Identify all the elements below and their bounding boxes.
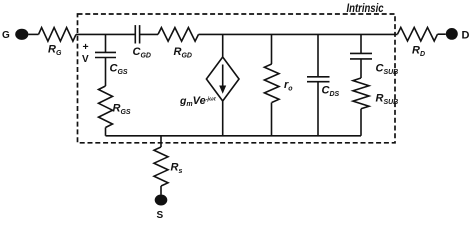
capacitor C_DS — [317, 34, 319, 76]
wire bottom rail to R_S — [160, 136, 162, 147]
node D terminal — [446, 28, 458, 40]
wire R_GD to drain internal rail — [199, 33, 398, 35]
svg-text:V: V — [82, 54, 89, 65]
wire C_GD to R_GD — [140, 33, 158, 35]
wire R_D to D terminal — [438, 33, 446, 35]
current source U1 (gmV) — [222, 34, 224, 57]
node G terminal — [15, 29, 28, 40]
svg-text:G: G — [2, 30, 10, 41]
svg-text:S: S — [157, 210, 164, 221]
resistor R_D — [398, 27, 438, 41]
wire C_GS to R_GS — [105, 58, 107, 87]
wire R_G to node A (gate internal) — [76, 33, 135, 35]
wire R_SUB to bottom rail — [360, 109, 362, 136]
resistor R_S — [154, 147, 168, 186]
resistor r_o — [271, 34, 273, 64]
svg-text:Intrinsic: Intrinsic — [347, 3, 384, 15]
capacitor C_GS — [105, 34, 107, 52]
wire R_S to S terminal — [160, 186, 162, 195]
svg-text:D: D — [462, 30, 470, 42]
svg-text:+: + — [83, 41, 89, 53]
resistor R_GD — [158, 28, 199, 42]
wire R_GS to bottom rail — [105, 128, 107, 136]
dashed intrinsic box — [78, 14, 396, 143]
wire C_SUB to R_SUB — [360, 59, 362, 78]
resistor R_SUB — [353, 78, 369, 109]
capacitor C_GD — [134, 25, 136, 43]
resistor R_GS — [99, 86, 113, 128]
wire G to R_G — [28, 33, 38, 35]
bottom rail wire — [106, 135, 362, 137]
resistor R_G — [39, 28, 77, 42]
capacitor C_SUB — [360, 34, 362, 53]
node S terminal — [155, 195, 168, 206]
